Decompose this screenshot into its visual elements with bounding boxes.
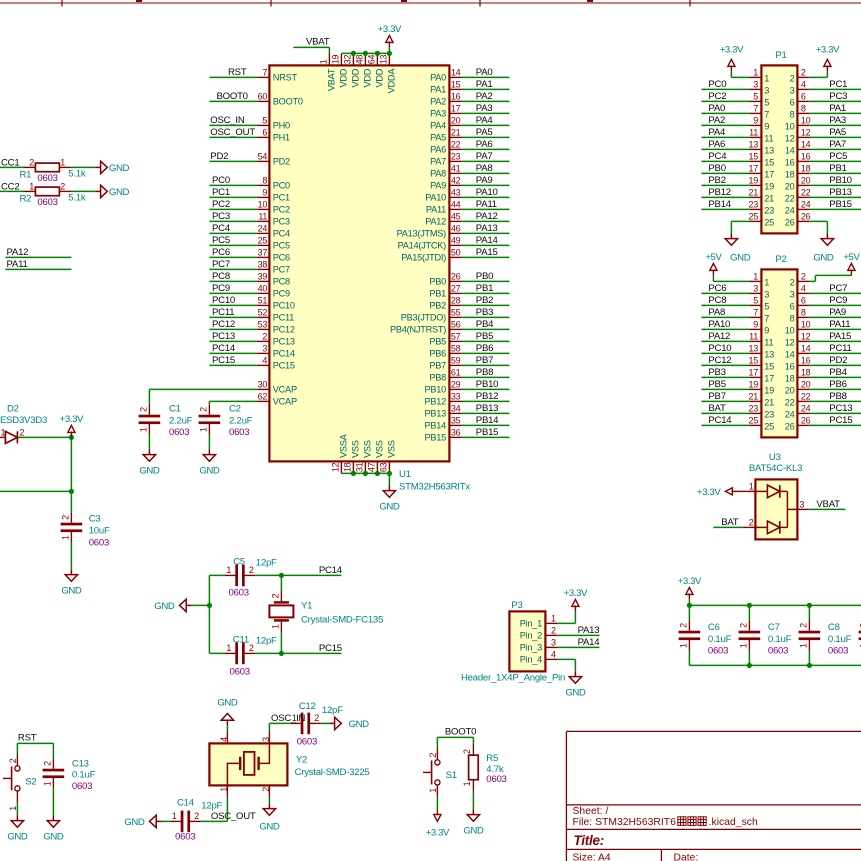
svg-text:22: 22 <box>785 193 795 203</box>
svg-text:PC9: PC9 <box>273 289 290 299</box>
svg-text:24: 24 <box>785 205 795 215</box>
svg-text:0603: 0603 <box>230 667 250 678</box>
svg-text:PC7: PC7 <box>212 259 230 270</box>
svg-text:PC0: PC0 <box>212 175 230 186</box>
svg-text:14: 14 <box>451 68 461 78</box>
svg-text:GND: GND <box>199 465 220 476</box>
svg-text:Header_1X4P_Angle_Pin: Header_1X4P_Angle_Pin <box>461 673 565 684</box>
svg-text:4: 4 <box>262 356 267 366</box>
svg-text:BOOT0: BOOT0 <box>445 727 476 738</box>
svg-text:PC4: PC4 <box>273 229 290 239</box>
svg-text:2: 2 <box>194 811 199 821</box>
svg-text:PH1: PH1 <box>273 133 290 143</box>
svg-text:20: 20 <box>801 176 811 186</box>
svg-text:GND: GND <box>109 187 130 198</box>
svg-text:2: 2 <box>462 749 472 754</box>
svg-text:9: 9 <box>753 320 758 330</box>
svg-text:1: 1 <box>764 277 769 287</box>
svg-text:15: 15 <box>764 157 774 167</box>
svg-text:C2: C2 <box>229 404 241 415</box>
svg-text:R5: R5 <box>486 753 498 764</box>
svg-text:PC1: PC1 <box>273 193 290 203</box>
svg-text:PA9: PA9 <box>829 307 846 318</box>
svg-text:56: 56 <box>451 320 461 330</box>
svg-text:11: 11 <box>258 212 267 222</box>
svg-text:P3: P3 <box>511 600 522 611</box>
svg-text:0603: 0603 <box>89 537 109 548</box>
svg-text:GND: GND <box>565 687 586 698</box>
svg-text:PA11: PA11 <box>7 259 28 270</box>
svg-text:23: 23 <box>451 152 461 162</box>
svg-text:12: 12 <box>330 462 340 472</box>
svg-text:VSS: VSS <box>375 440 385 458</box>
svg-text:OSC_OUT: OSC_OUT <box>210 127 255 138</box>
svg-text:PC7: PC7 <box>829 283 847 294</box>
svg-text:PC1: PC1 <box>212 187 230 198</box>
svg-text:39: 39 <box>258 272 268 282</box>
svg-text:PB4: PB4 <box>829 367 847 378</box>
svg-text:2: 2 <box>790 73 795 83</box>
svg-text:49: 49 <box>451 236 461 246</box>
svg-text:0.1uF: 0.1uF <box>768 634 792 645</box>
svg-text:Date:: Date: <box>674 853 699 861</box>
svg-text:52: 52 <box>258 308 268 318</box>
svg-text:PC6: PC6 <box>212 247 230 258</box>
svg-text:1: 1 <box>318 59 328 64</box>
svg-text:PB13: PB13 <box>829 187 851 198</box>
svg-text:7: 7 <box>764 313 769 323</box>
svg-text:PC6: PC6 <box>273 253 290 263</box>
svg-text:GND: GND <box>43 831 64 842</box>
svg-text:26: 26 <box>785 421 795 431</box>
svg-text:PC12: PC12 <box>708 355 731 366</box>
svg-text:22: 22 <box>785 397 795 407</box>
svg-text:Y1: Y1 <box>301 601 312 612</box>
svg-text:PA11: PA11 <box>829 319 850 330</box>
svg-text:5.1k: 5.1k <box>68 169 86 180</box>
svg-text:GND: GND <box>217 697 238 708</box>
svg-text:18: 18 <box>785 169 795 179</box>
svg-text:1: 1 <box>271 624 281 629</box>
svg-text:10: 10 <box>801 320 811 330</box>
svg-text:C7: C7 <box>768 622 780 633</box>
svg-text:0603: 0603 <box>169 427 189 438</box>
svg-text:GND: GND <box>730 252 751 263</box>
svg-text:PA10: PA10 <box>708 319 730 330</box>
svg-text:7: 7 <box>764 109 769 119</box>
svg-text:PA15(JTDI): PA15(JTDI) <box>401 253 446 263</box>
svg-text:PC14: PC14 <box>319 565 343 576</box>
svg-text:1: 1 <box>199 427 209 432</box>
svg-text:2.2uF: 2.2uF <box>229 415 253 426</box>
svg-text:PB10: PB10 <box>425 385 447 395</box>
svg-text:14: 14 <box>801 344 811 354</box>
svg-text:25: 25 <box>748 212 758 222</box>
svg-text:PA5: PA5 <box>476 127 493 138</box>
svg-text:1: 1 <box>8 806 18 811</box>
svg-text:59: 59 <box>451 356 461 366</box>
svg-text:2: 2 <box>261 787 271 792</box>
svg-text:PA4: PA4 <box>430 121 446 131</box>
svg-text:2: 2 <box>8 758 18 763</box>
svg-text:PB1: PB1 <box>429 289 446 299</box>
svg-text:GND: GND <box>813 252 834 263</box>
svg-text:PA0: PA0 <box>430 73 446 83</box>
svg-text:PB8: PB8 <box>429 373 446 383</box>
svg-text:PA6: PA6 <box>430 145 446 155</box>
svg-text:PB12: PB12 <box>708 187 730 198</box>
svg-text:61: 61 <box>451 368 461 378</box>
svg-text:Pin_3: Pin_3 <box>520 643 542 653</box>
svg-text:PD2: PD2 <box>273 157 290 167</box>
svg-text:PA1: PA1 <box>829 103 846 114</box>
svg-text:2: 2 <box>314 713 319 723</box>
svg-text:GND: GND <box>7 831 28 842</box>
svg-text:PB6: PB6 <box>476 343 493 354</box>
svg-text:PA4: PA4 <box>476 115 494 126</box>
svg-text:R2: R2 <box>20 193 32 204</box>
svg-text:PC5: PC5 <box>273 241 290 251</box>
svg-text:BAT: BAT <box>708 403 726 414</box>
svg-text:5: 5 <box>764 97 769 107</box>
svg-text:PA15: PA15 <box>476 247 498 258</box>
svg-text:63: 63 <box>378 462 388 472</box>
svg-text:22: 22 <box>801 392 811 402</box>
svg-text:6: 6 <box>262 128 267 138</box>
svg-text:27: 27 <box>451 284 461 294</box>
svg-text:20: 20 <box>801 380 811 390</box>
svg-text:3: 3 <box>790 85 795 95</box>
svg-text:PC5: PC5 <box>829 151 847 162</box>
svg-text:Crystal-SMD-FC135: Crystal-SMD-FC135 <box>301 615 383 626</box>
svg-text:3: 3 <box>753 284 758 294</box>
svg-text:19: 19 <box>330 54 340 64</box>
svg-text:16: 16 <box>785 361 795 371</box>
svg-text:19: 19 <box>764 181 774 191</box>
svg-text:1: 1 <box>43 781 53 786</box>
svg-text:+3.3V: +3.3V <box>426 827 450 838</box>
svg-text:12pF: 12pF <box>256 557 277 568</box>
svg-text:PB13: PB13 <box>425 409 447 419</box>
svg-text:+3.3V: +3.3V <box>378 24 402 35</box>
svg-text:PC7: PC7 <box>273 265 290 275</box>
svg-text:17: 17 <box>764 169 774 179</box>
svg-text:Crystal-SMD-3225: Crystal-SMD-3225 <box>295 767 370 778</box>
svg-text:10: 10 <box>785 325 795 335</box>
svg-text:C14: C14 <box>177 798 195 809</box>
svg-text:PC8: PC8 <box>212 271 230 282</box>
svg-text:+3.3V: +3.3V <box>816 44 840 55</box>
svg-text:21: 21 <box>764 397 774 407</box>
svg-text:18: 18 <box>342 462 352 472</box>
svg-text:0603: 0603 <box>229 427 249 438</box>
svg-text:PC9: PC9 <box>212 283 230 294</box>
svg-text:31: 31 <box>354 462 364 472</box>
svg-text:1: 1 <box>799 643 809 648</box>
svg-text:PC15: PC15 <box>273 361 295 371</box>
svg-text:PA12: PA12 <box>425 217 446 227</box>
svg-text:1: 1 <box>219 787 229 792</box>
svg-text:PH0: PH0 <box>273 121 290 131</box>
svg-text:3: 3 <box>764 289 769 299</box>
svg-text:16: 16 <box>801 152 811 162</box>
svg-text:PA8: PA8 <box>430 169 446 179</box>
svg-text:0603: 0603 <box>72 781 92 792</box>
svg-text:13: 13 <box>764 145 774 155</box>
svg-text:PC15: PC15 <box>212 355 235 366</box>
svg-text:R1: R1 <box>20 169 32 180</box>
svg-text:11: 11 <box>764 337 773 347</box>
svg-text:+3.3V: +3.3V <box>678 576 702 587</box>
svg-text:15: 15 <box>748 356 758 366</box>
svg-text:ESD3V3D3: ESD3V3D3 <box>0 415 47 426</box>
svg-text:29: 29 <box>451 380 461 390</box>
svg-text:BOOT0: BOOT0 <box>273 97 303 107</box>
svg-text:+3.3V: +3.3V <box>564 588 588 599</box>
svg-text:C13: C13 <box>72 758 89 769</box>
svg-text:PB4: PB4 <box>476 319 494 330</box>
svg-text:1: 1 <box>753 272 758 282</box>
svg-text:1: 1 <box>172 811 177 821</box>
svg-text:21: 21 <box>451 128 461 138</box>
svg-text:OSC_IN: OSC_IN <box>271 713 306 724</box>
svg-text:10: 10 <box>801 116 811 126</box>
svg-text:PA7: PA7 <box>430 157 446 167</box>
svg-text:Size: A4: Size: A4 <box>573 853 611 861</box>
svg-text:23: 23 <box>764 409 774 419</box>
svg-text:2: 2 <box>739 623 749 628</box>
svg-text:37: 37 <box>258 248 268 258</box>
svg-text:PC0: PC0 <box>273 181 290 191</box>
svg-text:PA2: PA2 <box>476 91 493 102</box>
svg-text:1: 1 <box>753 68 758 78</box>
svg-text:18: 18 <box>785 373 795 383</box>
svg-text:S1: S1 <box>446 770 457 781</box>
svg-text:PC12: PC12 <box>212 319 235 330</box>
svg-text:5: 5 <box>764 301 769 311</box>
svg-text:PA12: PA12 <box>476 211 498 222</box>
svg-text:C12: C12 <box>299 701 316 712</box>
svg-text:VDDA: VDDA <box>387 68 397 94</box>
svg-text:2: 2 <box>60 182 65 192</box>
svg-text:PA3: PA3 <box>829 115 846 126</box>
svg-text:PC11: PC11 <box>273 313 294 323</box>
svg-text:2: 2 <box>749 517 754 527</box>
svg-text:0603: 0603 <box>297 736 317 747</box>
svg-text:1: 1 <box>29 182 34 192</box>
svg-text:OSC_IN: OSC_IN <box>210 115 245 126</box>
svg-text:1: 1 <box>61 535 71 540</box>
svg-text:PA15: PA15 <box>829 331 851 342</box>
svg-text:PC14: PC14 <box>273 349 295 359</box>
svg-text:BOOT0: BOOT0 <box>217 91 248 102</box>
svg-text:PC8: PC8 <box>708 295 726 306</box>
svg-text:2: 2 <box>551 626 556 636</box>
svg-text:19: 19 <box>764 385 774 395</box>
svg-text:PC5: PC5 <box>212 235 230 246</box>
svg-text:14: 14 <box>801 140 811 150</box>
svg-text:Sheet: /: Sheet: / <box>573 806 609 817</box>
svg-text:PB8: PB8 <box>476 367 493 378</box>
svg-text:64: 64 <box>366 54 376 64</box>
svg-text:36: 36 <box>451 428 461 438</box>
svg-text:PA8: PA8 <box>476 163 493 174</box>
svg-text:12: 12 <box>801 332 811 342</box>
svg-text:PA1: PA1 <box>476 79 493 90</box>
svg-text:PA9: PA9 <box>430 181 446 191</box>
svg-text:PB15: PB15 <box>425 433 447 443</box>
svg-text:2: 2 <box>43 761 53 766</box>
svg-text:1: 1 <box>462 781 472 786</box>
svg-text:PB12: PB12 <box>476 391 498 402</box>
svg-text:1: 1 <box>139 427 149 432</box>
svg-text:PD2: PD2 <box>829 355 847 366</box>
svg-text:22: 22 <box>801 188 811 198</box>
svg-text:26: 26 <box>801 416 811 426</box>
svg-text:21: 21 <box>748 188 758 198</box>
svg-text:PA2: PA2 <box>430 97 446 107</box>
svg-text:BAT54C-KL3: BAT54C-KL3 <box>749 463 802 474</box>
svg-text:4.7k: 4.7k <box>486 764 504 775</box>
svg-text:PA8: PA8 <box>708 307 725 318</box>
svg-text:1: 1 <box>1 427 6 437</box>
svg-text:10: 10 <box>785 121 795 131</box>
svg-text:1: 1 <box>226 643 231 653</box>
svg-text:25: 25 <box>764 421 774 431</box>
svg-text:12pF: 12pF <box>256 636 277 647</box>
svg-text:PA5: PA5 <box>829 127 846 138</box>
svg-text:7: 7 <box>262 68 267 78</box>
svg-text:PB7: PB7 <box>429 361 446 371</box>
svg-text:3: 3 <box>753 80 758 90</box>
svg-text:PB0: PB0 <box>708 163 725 174</box>
svg-text:GND: GND <box>109 163 130 174</box>
svg-text:14: 14 <box>785 145 795 155</box>
svg-text:P1: P1 <box>775 50 786 61</box>
svg-text:0.1uF: 0.1uF <box>708 634 732 645</box>
svg-text:12: 12 <box>785 133 795 143</box>
svg-text:VSS: VSS <box>351 440 361 458</box>
svg-text:5: 5 <box>262 116 267 126</box>
svg-text:12pF: 12pF <box>201 801 222 812</box>
svg-text:19: 19 <box>748 176 758 186</box>
svg-text:VDD: VDD <box>351 68 361 87</box>
svg-text:PA7: PA7 <box>476 151 493 162</box>
svg-text:VSS: VSS <box>363 440 373 458</box>
svg-text:1: 1 <box>749 481 754 491</box>
svg-text:30: 30 <box>258 380 268 390</box>
svg-text:3: 3 <box>790 289 795 299</box>
svg-text:VDD: VDD <box>363 68 373 87</box>
svg-text:PA14: PA14 <box>476 235 499 246</box>
svg-text:8: 8 <box>801 308 806 318</box>
svg-text:5: 5 <box>753 296 758 306</box>
svg-text:1: 1 <box>764 73 769 83</box>
svg-text:NRST: NRST <box>273 73 298 83</box>
svg-text:24: 24 <box>801 404 811 414</box>
svg-text:6: 6 <box>790 301 795 311</box>
svg-text:6: 6 <box>790 97 795 107</box>
svg-text:25: 25 <box>258 236 268 246</box>
svg-text:12: 12 <box>801 128 811 138</box>
svg-text:PA1: PA1 <box>430 85 446 95</box>
svg-text:2: 2 <box>790 277 795 287</box>
svg-text:2: 2 <box>61 515 71 520</box>
svg-text:PC1: PC1 <box>829 79 847 90</box>
svg-text:PA0: PA0 <box>476 67 493 78</box>
svg-text:1: 1 <box>551 614 556 624</box>
svg-text:Pin_1: Pin_1 <box>520 619 542 629</box>
svg-text:3: 3 <box>262 344 267 354</box>
svg-text:2: 2 <box>801 68 806 78</box>
svg-text:5.1k: 5.1k <box>68 193 86 204</box>
svg-text:Y2: Y2 <box>296 755 307 766</box>
svg-text:VDD: VDD <box>375 68 385 87</box>
svg-text:PC2: PC2 <box>212 199 230 210</box>
svg-text:PB6: PB6 <box>829 379 846 390</box>
svg-text:20: 20 <box>451 116 461 126</box>
svg-text:16: 16 <box>785 157 795 167</box>
svg-text:46: 46 <box>451 224 461 234</box>
svg-text:PC10: PC10 <box>212 295 235 306</box>
svg-text:CC2: CC2 <box>1 182 19 193</box>
svg-text:PC10: PC10 <box>273 301 295 311</box>
svg-text:0603: 0603 <box>175 832 195 843</box>
svg-text:12: 12 <box>785 337 795 347</box>
svg-text:0603: 0603 <box>708 645 728 656</box>
svg-text:2: 2 <box>271 593 281 598</box>
svg-text:PC4: PC4 <box>708 151 727 162</box>
svg-text:16: 16 <box>451 92 461 102</box>
svg-text:2: 2 <box>801 272 806 282</box>
svg-text:PB1: PB1 <box>829 163 846 174</box>
svg-text:2: 2 <box>428 753 438 758</box>
svg-text:40: 40 <box>258 284 268 294</box>
svg-text:S2: S2 <box>25 776 36 787</box>
svg-text:32: 32 <box>342 54 352 64</box>
svg-text:PB4(NJTRST): PB4(NJTRST) <box>390 325 446 335</box>
svg-text:21: 21 <box>748 392 758 402</box>
svg-text:11: 11 <box>749 128 758 138</box>
svg-text:PB3(JTDO): PB3(JTDO) <box>401 313 446 323</box>
svg-text:PA3: PA3 <box>430 109 446 119</box>
svg-text:PA4: PA4 <box>708 127 726 138</box>
svg-text:2: 2 <box>679 623 689 628</box>
svg-text:1: 1 <box>679 643 689 648</box>
svg-text:44: 44 <box>451 200 461 210</box>
svg-text:PB5: PB5 <box>708 379 725 390</box>
svg-text:GND: GND <box>463 825 484 836</box>
svg-text:4: 4 <box>551 650 556 660</box>
svg-text:PB3: PB3 <box>476 307 493 318</box>
svg-text:8: 8 <box>790 109 795 119</box>
svg-text:VCAP: VCAP <box>273 397 297 407</box>
svg-text:60: 60 <box>258 92 268 102</box>
svg-text:0603: 0603 <box>486 774 506 785</box>
svg-text:24: 24 <box>785 409 795 419</box>
svg-text:0603: 0603 <box>37 197 57 208</box>
svg-text:PC14: PC14 <box>212 343 236 354</box>
svg-text:PB7: PB7 <box>708 391 725 402</box>
svg-text:11: 11 <box>749 332 758 342</box>
svg-text:51: 51 <box>258 296 268 306</box>
svg-text:+5V: +5V <box>705 252 722 263</box>
svg-text:2: 2 <box>199 407 209 412</box>
svg-text:C5: C5 <box>233 556 245 567</box>
svg-text:PB10: PB10 <box>476 379 498 390</box>
svg-text:PC4: PC4 <box>212 223 231 234</box>
svg-text:PC12: PC12 <box>273 325 295 335</box>
